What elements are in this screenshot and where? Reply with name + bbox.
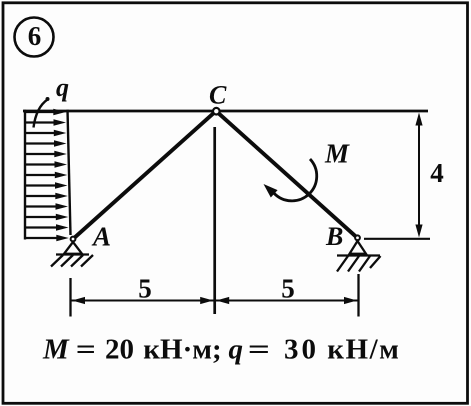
svg-text:C: C <box>209 81 227 110</box>
dimension 4 line <box>415 113 422 238</box>
dimension 5-5 line <box>71 297 359 304</box>
figure number 6 badge <box>15 18 54 57</box>
hinge C <box>213 108 220 115</box>
support A <box>51 242 93 267</box>
label q with leader <box>34 73 70 128</box>
svg-text:4: 4 <box>430 158 444 188</box>
moment M arrowhead <box>264 184 278 198</box>
svg-text:5: 5 <box>281 274 295 304</box>
vertical line from C (middle tick) <box>213 127 216 314</box>
support B <box>337 241 381 272</box>
pin B <box>355 235 360 240</box>
moment M arc <box>274 159 317 201</box>
dimension ticks A and B <box>69 278 71 317</box>
svg-text:B: B <box>325 222 343 251</box>
bar A-C <box>73 111 216 239</box>
svg-text:=: = <box>76 333 96 365</box>
top chord line <box>23 110 428 113</box>
svg-text:M: M <box>324 139 350 169</box>
distributed load q arrows <box>25 109 69 242</box>
pin A <box>71 237 76 242</box>
svg-text:A: A <box>91 222 111 252</box>
bar C-B <box>216 111 358 238</box>
load strip left edge <box>24 110 26 240</box>
svg-text:=: = <box>248 333 270 365</box>
svg-text:5: 5 <box>138 274 152 304</box>
svg-text:q: q <box>56 73 69 102</box>
svg-text:6: 6 <box>28 21 42 51</box>
load strip right edge (column to A) <box>68 110 71 235</box>
B right extension line <box>364 238 430 240</box>
